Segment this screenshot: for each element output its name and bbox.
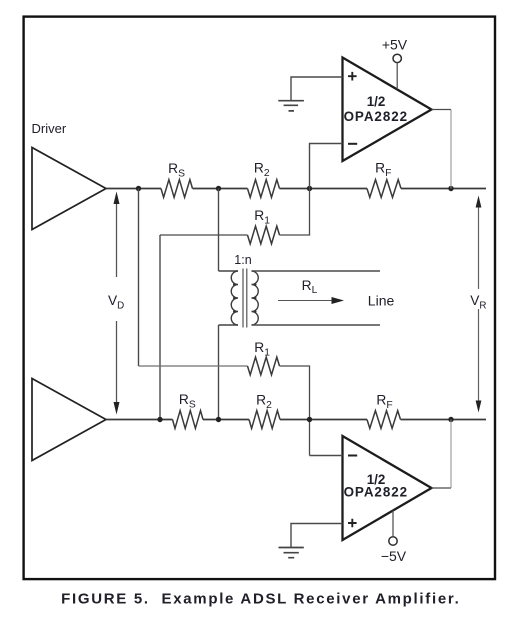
wire: U1a output to node D [432,109,452,111]
wire: RF right to top-right line end (through node D) [401,188,486,190]
node C-prime (R2/RF/inverting-input junction, bottom) [307,417,312,422]
transformer T1 primary winding cusp dots [233,283,236,313]
wire: +5V terminal to U1a supply pin [396,62,398,89]
resistor R1 (bottom cross-feed) [248,357,280,375]
op-amp U1b inverting pin mark (-) [348,455,357,457]
wire: R2 right to RF left (bottom, through node C-prime) [280,419,367,421]
resistor RS (bottom) [173,411,204,429]
wire: secondary top to line (right) [252,270,381,272]
node A (driver A1 output junction) [136,186,141,191]
node C (R2/RF/inverting-input junction, top) [307,186,312,191]
node B (RS/R2/transformer junction, top) [216,186,221,191]
wire: U1b inverting input to node C-prime [310,455,343,457]
op-amp U1a non-inverting pin mark (+) [348,72,357,81]
transformer T1 secondary winding cusp dots [254,283,257,313]
wire: node A down to cross-feed resistor R1 (bottom row) [138,189,140,367]
VR measurement arrow (receiver output voltage) [476,196,482,413]
resistor RS (top) [161,180,193,198]
op-amp U1b body [343,436,432,540]
transformer T1 secondary winding [252,271,259,325]
wire: top R1 right to vertical up to node C [280,189,310,236]
wire: bottom R1 row horizontal left segment [139,365,248,367]
wire: U1b supply pin to -5V terminal [392,510,394,537]
op-amp U1a inverting pin mark (-) [348,143,357,145]
RL direction arrow toward line [278,297,344,304]
node E (top R1 to bottom line junction) [157,417,162,422]
svg-text:FIGURE 5. Example ADSL Receiv: FIGURE 5. Example ADSL Receiver Amplifie… [61,591,460,608]
+5V supply terminal circle [393,54,401,62]
wire: RS right to R2 left (bottom, through node B-prime) [203,419,249,421]
wire: RF right to bottom-right line end (through node D-prime) [401,419,487,421]
svg-text:Driver: Driver [32,121,67,136]
svg-text:+5V: +5V [382,37,408,53]
op-amp U1b non-inverting pin mark (+) [348,519,357,528]
wire: transformer primary bottom to node B-prime [218,325,220,420]
wire: U1a non-inverting input to ground [291,77,343,100]
wire: RS right to R2 left (through node B) [193,188,248,190]
svg-text:OPA2822: OPA2822 [344,109,408,124]
wire: driver A2 output to node E [106,419,173,421]
wire: secondary bottom to line (right) [252,324,381,326]
node D-prime (RF/op-amp U1b output junction) [448,417,453,422]
ground symbol (U1a non-inverting input) [278,101,304,111]
ground symbol (U1b non-inverting input) [279,548,304,558]
wire: node B down to transformer primary top [218,189,220,272]
wire: R2 right to RF left (through node C) [280,188,368,190]
wire: U1b non-inverting input to ground [291,524,343,548]
driver amplifier A2 (bottom) [32,379,106,461]
node B-prime (RS/R2/transformer junction, bottom) [216,417,221,422]
wire: U1a output vertical down to node D [450,110,452,189]
wire: top R1 row horizontal left segment [160,234,248,236]
svg-text:OPA2822: OPA2822 [344,484,408,499]
wire: top R1 row left vertical down to node E [159,235,161,420]
wire: driver A1 output to resistor RS left [106,188,161,190]
op-amp U1a body [343,58,432,162]
transformer T1 primary stub bottom [219,324,239,326]
resistor RF (bottom) [367,411,401,429]
svg-text:1:n: 1:n [234,253,251,267]
resistor RF (top) [367,180,401,198]
VD measurement arrow (differential driver voltage) [114,192,120,415]
wire: U1b output to node D-prime [432,487,452,489]
driver amplifier A1 (top) [32,148,106,230]
transformer T1 core [243,269,247,328]
svg-text:1/2: 1/2 [367,94,386,109]
wire: U1b output vertical up to node D-prime [450,420,452,489]
node D (RF/op-amp U1a output junction) [448,186,453,191]
resistor R2 (top) [248,180,280,198]
wire: U1a inverting input to node C [310,144,343,189]
resistor R2 (bottom) [249,411,280,429]
resistor R1 (top cross-feed) [248,226,280,244]
transformer T1 primary winding [231,271,238,325]
transformer T1 primary stub top [219,270,239,272]
svg-text:−5V: −5V [381,548,407,564]
svg-text:Line: Line [368,293,395,309]
-5V supply terminal circle [389,537,397,545]
wire: bottom R1 right to vertical down through node C-prime to U1b inverting input [280,366,310,456]
